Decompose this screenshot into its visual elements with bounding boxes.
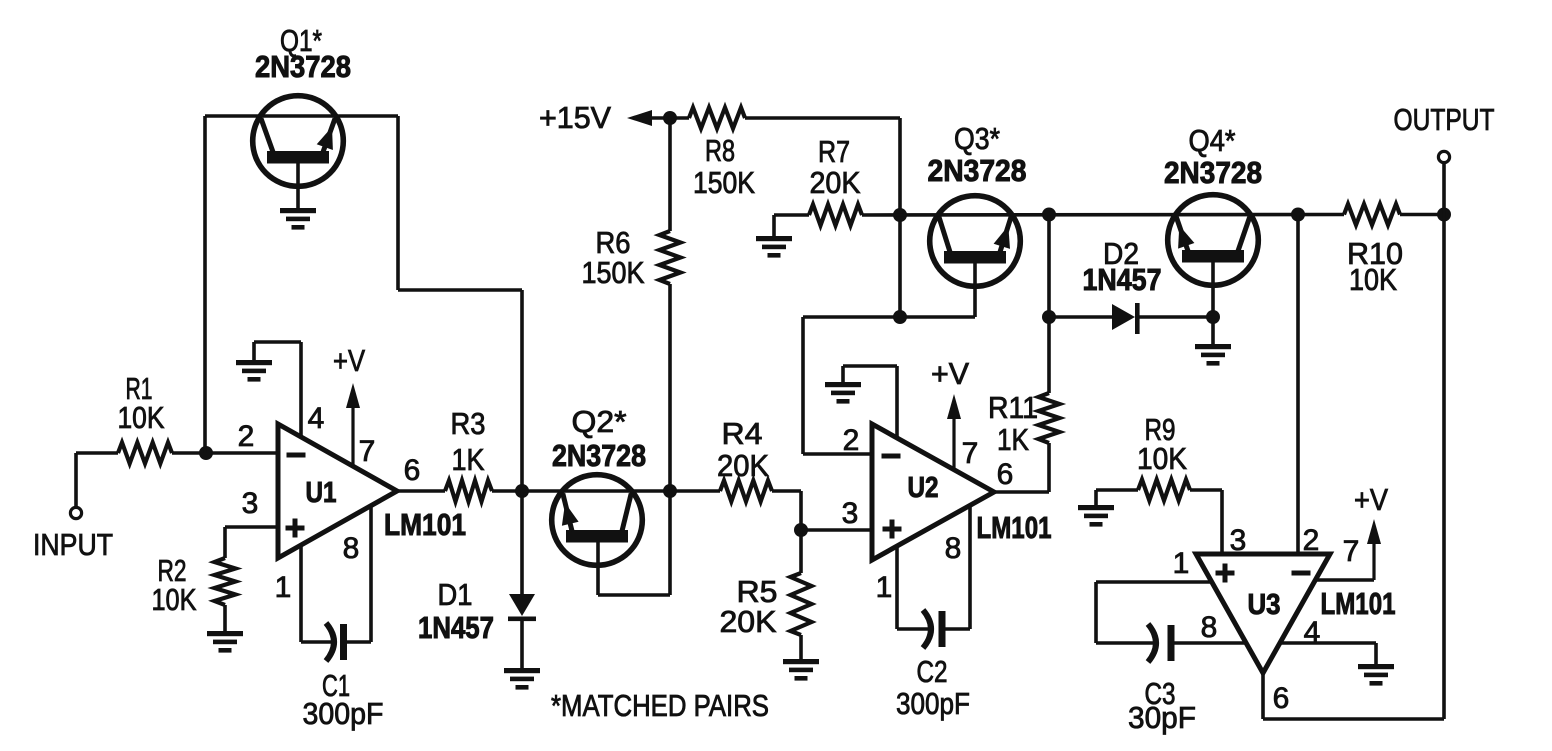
svg-text:4: 4 <box>1304 616 1321 649</box>
wire R3 to node <box>492 489 522 493</box>
op-amp U2 non-inverting input sign <box>883 520 902 539</box>
ground U3 pin4 <box>1358 664 1394 686</box>
wire C3 right lead to U3 pin8 <box>1174 641 1246 645</box>
label +V U3 <box>1354 482 1388 517</box>
label U3 <box>1248 589 1281 621</box>
svg-text:1N457: 1N457 <box>1083 262 1162 297</box>
wire U3 pin2 vertical <box>1296 215 1300 555</box>
wire U3 output pin6 <box>1263 673 1444 719</box>
wire R11 branch vertical <box>1047 215 1051 318</box>
label R3 value 1K <box>452 442 485 477</box>
svg-text:+15V: +15V <box>539 100 611 135</box>
svg-text:150K: 150K <box>693 165 755 200</box>
label R6 <box>596 225 631 260</box>
label U2 type LM101 <box>977 510 1052 545</box>
transistor Q1 (2N3728) <box>253 96 344 187</box>
node junction R4 / R5 / U2 pin3 <box>794 523 808 537</box>
wire U3 pin4 link <box>1280 643 1376 664</box>
wire output stub <box>1442 162 1446 215</box>
wire Q1 feedback horizontal segment <box>398 288 522 292</box>
svg-text:U2: U2 <box>908 472 939 504</box>
wire R11 to U2 output <box>994 490 1049 494</box>
svg-text:INPUT: INPUT <box>33 527 113 562</box>
node junction R8 branch / U2 pin2 row <box>893 310 907 324</box>
svg-text:LM101: LM101 <box>977 510 1052 545</box>
op-amp U3 <box>1196 554 1330 673</box>
node junction R10 / OUTPUT / feedback <box>1437 208 1451 222</box>
svg-text:10K: 10K <box>152 582 197 617</box>
transistor Q4 (2N3728) <box>1168 195 1259 286</box>
label C1 <box>322 668 350 703</box>
svg-text:4: 4 <box>308 402 325 435</box>
power +15V arrow <box>627 110 689 126</box>
wire D1 anode stem <box>520 491 524 595</box>
svg-text:8: 8 <box>945 532 962 565</box>
label R5 value 20K <box>720 604 777 639</box>
diode D2 <box>1049 303 1213 334</box>
resistor R3 <box>445 481 492 502</box>
svg-text:OUTPUT: OUTPUT <box>1394 102 1495 137</box>
svg-text:3: 3 <box>1230 524 1247 557</box>
wire U3 pin7 link <box>1315 578 1374 582</box>
wire C2 left lead <box>897 627 930 631</box>
svg-text:U1: U1 <box>306 477 337 509</box>
svg-text:2: 2 <box>238 420 255 453</box>
wire R9 ground stub <box>1096 490 1138 507</box>
svg-text:7: 7 <box>1343 535 1360 568</box>
label D1 type 1N457 <box>418 610 494 645</box>
label R1 value 10K <box>118 400 165 435</box>
label INPUT <box>33 527 113 562</box>
pin label 8 U3 <box>1201 611 1218 644</box>
resistor R7 <box>809 205 862 226</box>
svg-text:20K: 20K <box>810 165 861 200</box>
node junction R7 / R8 branch / Q3 row <box>893 208 907 222</box>
svg-text:1: 1 <box>876 571 893 604</box>
wire U2 pin1 stem <box>895 546 899 629</box>
wire R4 to U2 pin3 corner <box>772 491 801 530</box>
wire U1 pin4 ground link <box>254 342 301 438</box>
wire feedback right vertical <box>1442 215 1446 720</box>
ground R2 <box>207 631 243 653</box>
wire C2 right lead to U2 pin8 <box>945 505 970 629</box>
ground Q1 base <box>280 208 316 230</box>
svg-text:7: 7 <box>359 435 376 468</box>
label R11 <box>988 390 1038 425</box>
label U1 type LM101 <box>384 507 466 542</box>
svg-text:1K: 1K <box>452 442 485 477</box>
wire C3 to pin1 vertical <box>1094 582 1098 643</box>
wire main row through Q2 <box>522 489 720 493</box>
label R4 value 20K <box>717 448 769 483</box>
svg-text:LM101: LM101 <box>384 507 466 542</box>
node junction R6 / Q2 base / main row <box>663 484 677 498</box>
ground R7 <box>756 236 792 258</box>
svg-text:+V: +V <box>333 343 365 378</box>
label Q1 type 2N3728 <box>255 49 351 84</box>
ground U2 top <box>825 382 861 404</box>
resistor R4 <box>720 481 772 502</box>
capacitor C1 <box>326 623 344 661</box>
label R7 value 20K <box>810 165 861 200</box>
label +V U2 <box>931 356 969 391</box>
svg-text:2: 2 <box>843 424 860 457</box>
label R11 value 1K <box>997 422 1029 457</box>
power +V arrow U1 pin7 <box>346 383 360 468</box>
pin label 2 U3 <box>1303 524 1320 557</box>
resistor R6 <box>660 118 681 491</box>
svg-text:Q3*: Q3* <box>954 121 1000 156</box>
label R2 value 10K <box>152 582 197 617</box>
op-amp U3 non-inverting input sign <box>1216 564 1235 583</box>
label C2 value 300pF <box>896 686 970 721</box>
label R10 value 10K <box>1349 262 1397 297</box>
wire C3 left lead <box>1096 641 1154 645</box>
label U2 <box>908 472 939 504</box>
svg-text:D1: D1 <box>438 577 473 612</box>
svg-text:R11: R11 <box>988 390 1038 425</box>
svg-text:8: 8 <box>343 532 360 565</box>
svg-text:1N457: 1N457 <box>418 610 494 645</box>
label +15V <box>539 100 611 135</box>
power +V arrow U2 pin7 <box>947 394 961 470</box>
svg-text:300pF: 300pF <box>303 696 384 731</box>
wire R7 ground stub <box>774 215 809 238</box>
svg-text:10K: 10K <box>1349 262 1397 297</box>
svg-text:1: 1 <box>275 571 292 604</box>
svg-text:*MATCHED PAIRS: *MATCHED PAIRS <box>551 688 769 723</box>
label OUTPUT <box>1394 102 1495 137</box>
pin label 6 U2 <box>997 458 1014 491</box>
pin label 7 U3 <box>1343 535 1360 568</box>
ground D1 <box>504 668 540 690</box>
label R9 value 10K <box>1137 441 1187 476</box>
wire Q1 base stem <box>296 162 300 208</box>
svg-text:+V: +V <box>1354 482 1388 517</box>
label Q4 type 2N3728 <box>1164 155 1262 190</box>
svg-text:30pF: 30pF <box>1128 700 1196 735</box>
power +V arrow U3 pin7 <box>1367 519 1381 580</box>
resistor R5 <box>791 530 812 659</box>
wire Q1 left leg vertical <box>203 116 207 453</box>
wire Q2 base loop <box>598 491 670 595</box>
pin label 6 U1 <box>404 454 421 487</box>
pin label 7 U1 <box>359 435 376 468</box>
wire Q4 base stem <box>1211 261 1215 344</box>
pin label 3 U2 <box>842 497 859 530</box>
pin label 3 U1 <box>242 487 259 520</box>
svg-text:150K: 150K <box>582 255 645 290</box>
node junction R11 / D2 <box>1042 310 1056 324</box>
label D2 <box>1103 236 1139 271</box>
wire D1 cathode to ground <box>520 621 524 668</box>
svg-text:2N3728: 2N3728 <box>552 438 646 473</box>
svg-text:300pF: 300pF <box>896 686 970 721</box>
pin label 6 U3 <box>1273 682 1290 715</box>
op-amp U3 inverting input sign <box>1292 571 1311 576</box>
transistor Q2 (2N3728) <box>552 475 643 566</box>
label R7 <box>818 134 850 169</box>
label Q4 <box>1189 123 1236 158</box>
pin label 7 U2 <box>962 437 979 470</box>
op-amp U1 non-inverting input sign <box>286 519 305 538</box>
label +V U1 <box>333 343 365 378</box>
label R8 <box>705 133 735 168</box>
svg-text:20K: 20K <box>720 604 777 639</box>
label R9 <box>1145 412 1176 447</box>
wire C1 left lead <box>301 640 334 644</box>
ground Q4 base <box>1195 344 1231 366</box>
wire to U2 pin3 <box>801 528 872 532</box>
capacitor C2 <box>923 610 942 648</box>
wire U2 ground link <box>843 366 897 438</box>
op-amp U2 <box>872 424 994 560</box>
svg-text:2N3728: 2N3728 <box>1164 155 1262 190</box>
node junction D2 / Q4 base <box>1206 310 1220 324</box>
note MATCHED PAIRS <box>551 688 769 723</box>
wire U3 pin1 stub <box>1096 580 1212 584</box>
wire top row through Q3 and Q4 <box>862 213 1344 217</box>
pin label 1 U2 <box>876 571 893 604</box>
diode D1 <box>508 594 536 621</box>
svg-text:U3: U3 <box>1248 589 1281 621</box>
label Q3 <box>954 121 1000 156</box>
label R10 <box>1347 236 1403 271</box>
ground U1 pin4 <box>236 360 272 382</box>
wire R8 to Q3 branch corner <box>745 118 900 317</box>
pin label 1 U1 <box>275 571 292 604</box>
ground R9 <box>1078 505 1114 527</box>
ground R5 <box>783 659 819 681</box>
INPUT terminal <box>70 507 81 518</box>
label R2 <box>158 553 187 588</box>
resistor R9 <box>1138 480 1190 501</box>
svg-text:6: 6 <box>1273 682 1290 715</box>
resistor R8 <box>689 108 745 129</box>
node junction +15V / R8 / R6 <box>663 111 677 125</box>
svg-text:10K: 10K <box>118 400 165 435</box>
wire R10 to output node <box>1400 213 1444 217</box>
svg-text:20K: 20K <box>717 448 769 483</box>
label C1 value 300pF <box>303 696 384 731</box>
label R6 value 150K <box>582 255 645 290</box>
pin label 1 U3 <box>1173 547 1190 580</box>
resistor R1 <box>118 443 172 464</box>
svg-text:C2: C2 <box>917 654 948 689</box>
svg-text:2N3728: 2N3728 <box>928 153 1027 188</box>
label R3 <box>451 406 486 441</box>
pin label 2 U1 <box>238 420 255 453</box>
svg-text:Q2*: Q2* <box>572 404 627 439</box>
wire Q1 collector-emitter row <box>205 114 398 118</box>
wire U1 pin3 stub <box>225 525 278 529</box>
OUTPUT terminal <box>1438 151 1449 162</box>
svg-text:3: 3 <box>842 497 859 530</box>
pin label 2 U2 <box>843 424 860 457</box>
op-amp U1 <box>278 424 397 558</box>
label C2 <box>917 654 948 689</box>
wire C1 right lead to U1 pin8 <box>346 505 371 642</box>
pin label 4 U3 <box>1304 616 1321 649</box>
op-amp U2 inverting input sign <box>882 454 901 459</box>
label C3 <box>1145 676 1176 711</box>
svg-text:10K: 10K <box>1137 441 1187 476</box>
svg-text:LM101: LM101 <box>1321 586 1396 621</box>
label U1 <box>306 477 337 509</box>
label R1 <box>126 371 153 406</box>
pin label 4 U1 <box>308 402 325 435</box>
node junction top row / U3 pin2 branch <box>1291 208 1305 222</box>
pin label 8 U2 <box>945 532 962 565</box>
resistor R11 <box>1039 317 1060 492</box>
svg-text:6: 6 <box>997 458 1014 491</box>
wire Q3 base stem <box>973 261 977 317</box>
resistor R2 <box>215 527 236 631</box>
label R5 <box>737 574 778 609</box>
node junction top row / R11 branch <box>1042 208 1056 222</box>
svg-text:8: 8 <box>1201 611 1218 644</box>
node junction R1 / Q1 loop / U1 pin2 <box>199 446 213 460</box>
op-amp U1 inverting input sign <box>287 453 306 458</box>
svg-text:+V: +V <box>931 356 969 391</box>
label D1 <box>438 577 473 612</box>
transistor Q3 (2N3728) <box>930 196 1021 287</box>
svg-text:6: 6 <box>404 454 421 487</box>
label R8 value 150K <box>693 165 755 200</box>
label U3 type LM101 <box>1321 586 1396 621</box>
label Q3 type 2N3728 <box>928 153 1027 188</box>
pin label 3 U3 <box>1230 524 1247 557</box>
svg-text:1K: 1K <box>997 422 1029 457</box>
label D2 type 1N457 <box>1083 262 1162 297</box>
wire U1 pin1 stem <box>299 545 303 642</box>
svg-text:Q4*: Q4* <box>1189 123 1236 158</box>
wire R1 to U1 pin 2 <box>172 451 278 455</box>
wire input terminal to R1 <box>76 453 118 508</box>
pin label 8 U1 <box>343 532 360 565</box>
label Q2 type 2N3728 <box>552 438 646 473</box>
svg-text:3: 3 <box>242 487 259 520</box>
wire Q1 feedback to R3 node <box>520 290 524 491</box>
node junction R3 / D1 / Q1 loop / Q2 <box>515 484 529 498</box>
label Q1 <box>280 23 322 58</box>
svg-text:2: 2 <box>1303 524 1320 557</box>
svg-text:7: 7 <box>962 437 979 470</box>
resistor R10 <box>1344 204 1400 225</box>
svg-text:1: 1 <box>1173 547 1190 580</box>
svg-text:R4: R4 <box>722 416 763 451</box>
svg-text:R3: R3 <box>451 406 486 441</box>
wire U1 output to R3 <box>397 489 445 493</box>
label R4 <box>722 416 763 451</box>
wire Q1 feedback down segment <box>396 116 400 290</box>
wire U2 pin2 path <box>803 317 975 454</box>
wire R9 to U3 pin3 <box>1190 490 1222 554</box>
label Q2 <box>572 404 627 439</box>
svg-text:R7: R7 <box>818 134 850 169</box>
label C3 value 30pF <box>1128 700 1196 735</box>
svg-text:R8: R8 <box>705 133 735 168</box>
svg-text:2N3728: 2N3728 <box>255 49 351 84</box>
capacitor C3 <box>1148 624 1171 662</box>
